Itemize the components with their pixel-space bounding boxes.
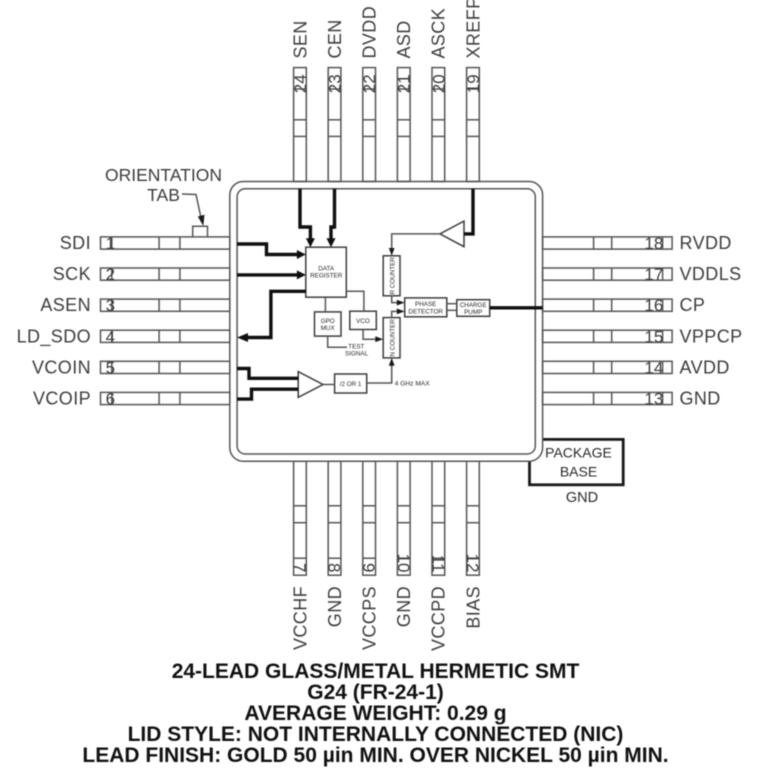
svg-text:/2 OR 1: /2 OR 1 bbox=[340, 381, 362, 388]
svg-text:GND: GND bbox=[680, 389, 721, 409]
wire: r counter to phase detector bbox=[392, 296, 405, 306]
4 GHz MAX label bbox=[395, 380, 430, 387]
svg-text:21: 21 bbox=[395, 74, 414, 93]
pin 11 VCCPD (bottom) bbox=[428, 461, 448, 651]
package base box bbox=[530, 439, 624, 484]
svg-text:6: 6 bbox=[106, 390, 115, 409]
svg-text:15: 15 bbox=[644, 327, 663, 346]
pin 18 RVDD (right) bbox=[543, 233, 732, 253]
svg-text:19: 19 bbox=[464, 74, 483, 93]
wire: gpo mux to test signal bbox=[328, 336, 347, 347]
svg-text:SDI: SDI bbox=[60, 233, 91, 253]
svg-text:AVDD: AVDD bbox=[680, 357, 730, 377]
svg-text:18: 18 bbox=[644, 234, 663, 253]
svg-text:SIGNAL: SIGNAL bbox=[345, 350, 369, 357]
svg-text:GND: GND bbox=[325, 586, 345, 627]
pin 13 GND (right) bbox=[543, 389, 721, 409]
pin 20 ASCK (top) bbox=[429, 8, 449, 182]
svg-text:DVDD: DVDD bbox=[360, 6, 380, 59]
svg-text:VPPCP: VPPCP bbox=[680, 326, 743, 346]
package base GND label bbox=[566, 490, 598, 506]
pin 19 XREFP (top) bbox=[463, 0, 483, 182]
svg-text:CEN: CEN bbox=[325, 19, 345, 58]
svg-text:3: 3 bbox=[106, 296, 115, 315]
pin 16 CP (right) bbox=[543, 295, 706, 315]
svg-text:20: 20 bbox=[429, 74, 448, 93]
wire: pin 19 XREFP to xref buffer bbox=[464, 189, 473, 234]
svg-text:24: 24 bbox=[291, 74, 310, 93]
svg-text:CHARGE: CHARGE bbox=[460, 302, 487, 309]
svg-text:ASEN: ASEN bbox=[40, 295, 91, 315]
svg-text:XREFP: XREFP bbox=[463, 0, 483, 59]
wire: data register to vco bbox=[346, 291, 364, 311]
svg-text:14: 14 bbox=[644, 358, 663, 377]
svg-text:9: 9 bbox=[359, 563, 378, 572]
pin 22 DVDD (top) bbox=[360, 6, 380, 182]
svg-text:VCOIP: VCOIP bbox=[33, 389, 91, 409]
pin 8 GND (bottom) bbox=[325, 461, 345, 627]
pin 3 ASEN (left) bbox=[40, 295, 229, 315]
svg-text:10: 10 bbox=[394, 554, 413, 573]
svg-text:PHASE: PHASE bbox=[415, 301, 436, 308]
svg-text:LEAD FINISH: GOLD 50 µin MIN.: LEAD FINISH: GOLD 50 µin MIN. OVER NICKE… bbox=[82, 744, 668, 767]
pin 15 VPPCP (right) bbox=[543, 326, 743, 346]
svg-text:DATA: DATA bbox=[318, 266, 335, 273]
svg-text:4: 4 bbox=[106, 327, 115, 346]
svg-text:ASCK: ASCK bbox=[429, 8, 449, 59]
svg-text:TAB: TAB bbox=[147, 185, 180, 205]
svg-text:8: 8 bbox=[325, 563, 344, 572]
wire: vco to n counter bbox=[363, 330, 383, 343]
wire: pin 5 VCOIN to amplifier bbox=[237, 369, 298, 379]
caption line 4 bbox=[128, 723, 624, 746]
svg-text:11: 11 bbox=[428, 555, 447, 573]
svg-text:SCK: SCK bbox=[53, 264, 91, 284]
svg-text:16: 16 bbox=[644, 296, 663, 315]
wire: phase detector to charge pump (pair) bbox=[447, 304, 457, 311]
svg-text:17: 17 bbox=[644, 265, 663, 284]
svg-text:22: 22 bbox=[360, 74, 379, 93]
pin 24 SEN (top) bbox=[290, 20, 310, 181]
svg-text:PUMP: PUMP bbox=[464, 309, 482, 316]
phase detector block bbox=[405, 298, 447, 317]
wire: pin 6 VCOIP to amplifier bbox=[237, 389, 298, 399]
caption line 1 bbox=[172, 660, 580, 683]
pin 9 VCCPS (bottom) bbox=[359, 461, 379, 650]
wire: pin 23 CEN to data register bbox=[327, 189, 336, 247]
pin 17 VDDLS (right) bbox=[543, 264, 742, 284]
divide-by-2-or-1 block bbox=[335, 374, 367, 393]
pin 7 VCCHF (bottom) bbox=[290, 461, 310, 650]
orientation tab bump bbox=[193, 226, 208, 237]
svg-text:5: 5 bbox=[106, 358, 115, 377]
n counter block bbox=[383, 318, 400, 358]
svg-text:ASD: ASD bbox=[394, 20, 414, 58]
svg-text:VCO: VCO bbox=[356, 318, 370, 325]
vco input amplifier (right-pointing triangle) bbox=[298, 372, 323, 398]
svg-text:2: 2 bbox=[106, 265, 115, 284]
r counter block bbox=[383, 256, 400, 296]
data register U-block bbox=[306, 247, 347, 297]
pin 6 VCOIP (left) bbox=[33, 389, 230, 409]
svg-text:PACKAGE: PACKAGE bbox=[545, 445, 612, 461]
vco block bbox=[350, 311, 377, 329]
pin 4 LD_SDO (left) bbox=[17, 326, 230, 347]
package body outer outline bbox=[230, 182, 543, 462]
pin 23 CEN (top) bbox=[325, 19, 345, 181]
svg-text:VDDLS: VDDLS bbox=[680, 264, 742, 284]
pin 10 GND (bottom) bbox=[394, 461, 414, 627]
svg-text:LD_SDO: LD_SDO bbox=[17, 326, 91, 347]
svg-text:MUX: MUX bbox=[321, 325, 336, 332]
caption line 3 bbox=[244, 702, 506, 725]
wire: pin 2 SCK to data register bbox=[237, 270, 306, 279]
pin 1 SDI (left) bbox=[60, 233, 230, 253]
svg-text:13: 13 bbox=[644, 390, 663, 409]
wire: /2 or 1 to n counter bbox=[367, 358, 395, 383]
svg-text:GND: GND bbox=[566, 490, 598, 506]
pin 2 SCK (left) bbox=[53, 264, 230, 284]
wire: xref buffer to r counter bbox=[389, 234, 440, 256]
pin 12 BIAS (bottom) bbox=[463, 461, 483, 628]
svg-text:AVERAGE WEIGHT: 0.29 g: AVERAGE WEIGHT: 0.29 g bbox=[244, 702, 506, 725]
svg-text:REGISTER: REGISTER bbox=[310, 273, 343, 280]
caption line 2 bbox=[307, 681, 444, 704]
svg-text:VCOIN: VCOIN bbox=[32, 357, 91, 377]
pin 21 ASD (top) bbox=[394, 20, 414, 181]
svg-text:CP: CP bbox=[680, 295, 706, 315]
svg-text:BIAS: BIAS bbox=[463, 586, 483, 629]
svg-text:23: 23 bbox=[326, 74, 345, 93]
svg-text:12: 12 bbox=[463, 554, 482, 573]
svg-text:VCCHF: VCCHF bbox=[290, 586, 310, 650]
svg-text:G24 (FR-24-1): G24 (FR-24-1) bbox=[307, 681, 444, 704]
charge pump block bbox=[457, 300, 490, 317]
svg-text:VCCPS: VCCPS bbox=[360, 586, 380, 650]
wire: n counter to phase detector bbox=[392, 309, 405, 318]
wire: pin 1 SDI to data register bbox=[237, 244, 306, 259]
gpo mux block bbox=[315, 312, 342, 336]
wire: amplifier to /2 or 1 bbox=[323, 384, 335, 386]
svg-text:R COUNTER: R COUNTER bbox=[390, 257, 397, 295]
svg-text:LID STYLE: NOT INTERNALLY CONN: LID STYLE: NOT INTERNALLY CONNECTED (NIC… bbox=[128, 723, 624, 746]
svg-text:DETECTOR: DETECTOR bbox=[408, 308, 443, 315]
orientation tab label bbox=[105, 165, 222, 205]
package body inner outline bbox=[237, 189, 535, 454]
pin 5 VCOIN (left) bbox=[32, 357, 230, 377]
svg-text:RVDD: RVDD bbox=[680, 233, 732, 253]
caption line 5 bbox=[82, 744, 668, 767]
wire: pin 24 SEN to data register bbox=[300, 189, 315, 247]
xref input buffer (left-pointing triangle) bbox=[440, 221, 464, 247]
svg-text:BASE: BASE bbox=[560, 464, 597, 480]
svg-text:1: 1 bbox=[106, 234, 115, 253]
svg-text:VCCPD: VCCPD bbox=[429, 586, 449, 651]
wire: charge pump to pin 16 CP bbox=[490, 306, 543, 309]
svg-text:GND: GND bbox=[394, 586, 414, 627]
svg-text:7: 7 bbox=[290, 563, 309, 572]
wire: data register to pin 4 LD_SDO (output arrow) bbox=[237, 291, 306, 342]
svg-text:SEN: SEN bbox=[290, 20, 310, 58]
orientation tab leader line bbox=[182, 194, 205, 226]
svg-text:4 GHz MAX: 4 GHz MAX bbox=[395, 380, 430, 387]
pin 14 AVDD (right) bbox=[543, 357, 730, 377]
svg-text:24-LEAD GLASS/METAL HERMETIC S: 24-LEAD GLASS/METAL HERMETIC SMT bbox=[172, 660, 580, 683]
test signal label bbox=[345, 344, 369, 358]
wire: data register to gpo mux bbox=[324, 297, 326, 312]
svg-text:N COUNTER: N COUNTER bbox=[390, 319, 397, 357]
svg-text:GPO: GPO bbox=[321, 318, 335, 325]
svg-text:ORIENTATION: ORIENTATION bbox=[105, 165, 222, 185]
